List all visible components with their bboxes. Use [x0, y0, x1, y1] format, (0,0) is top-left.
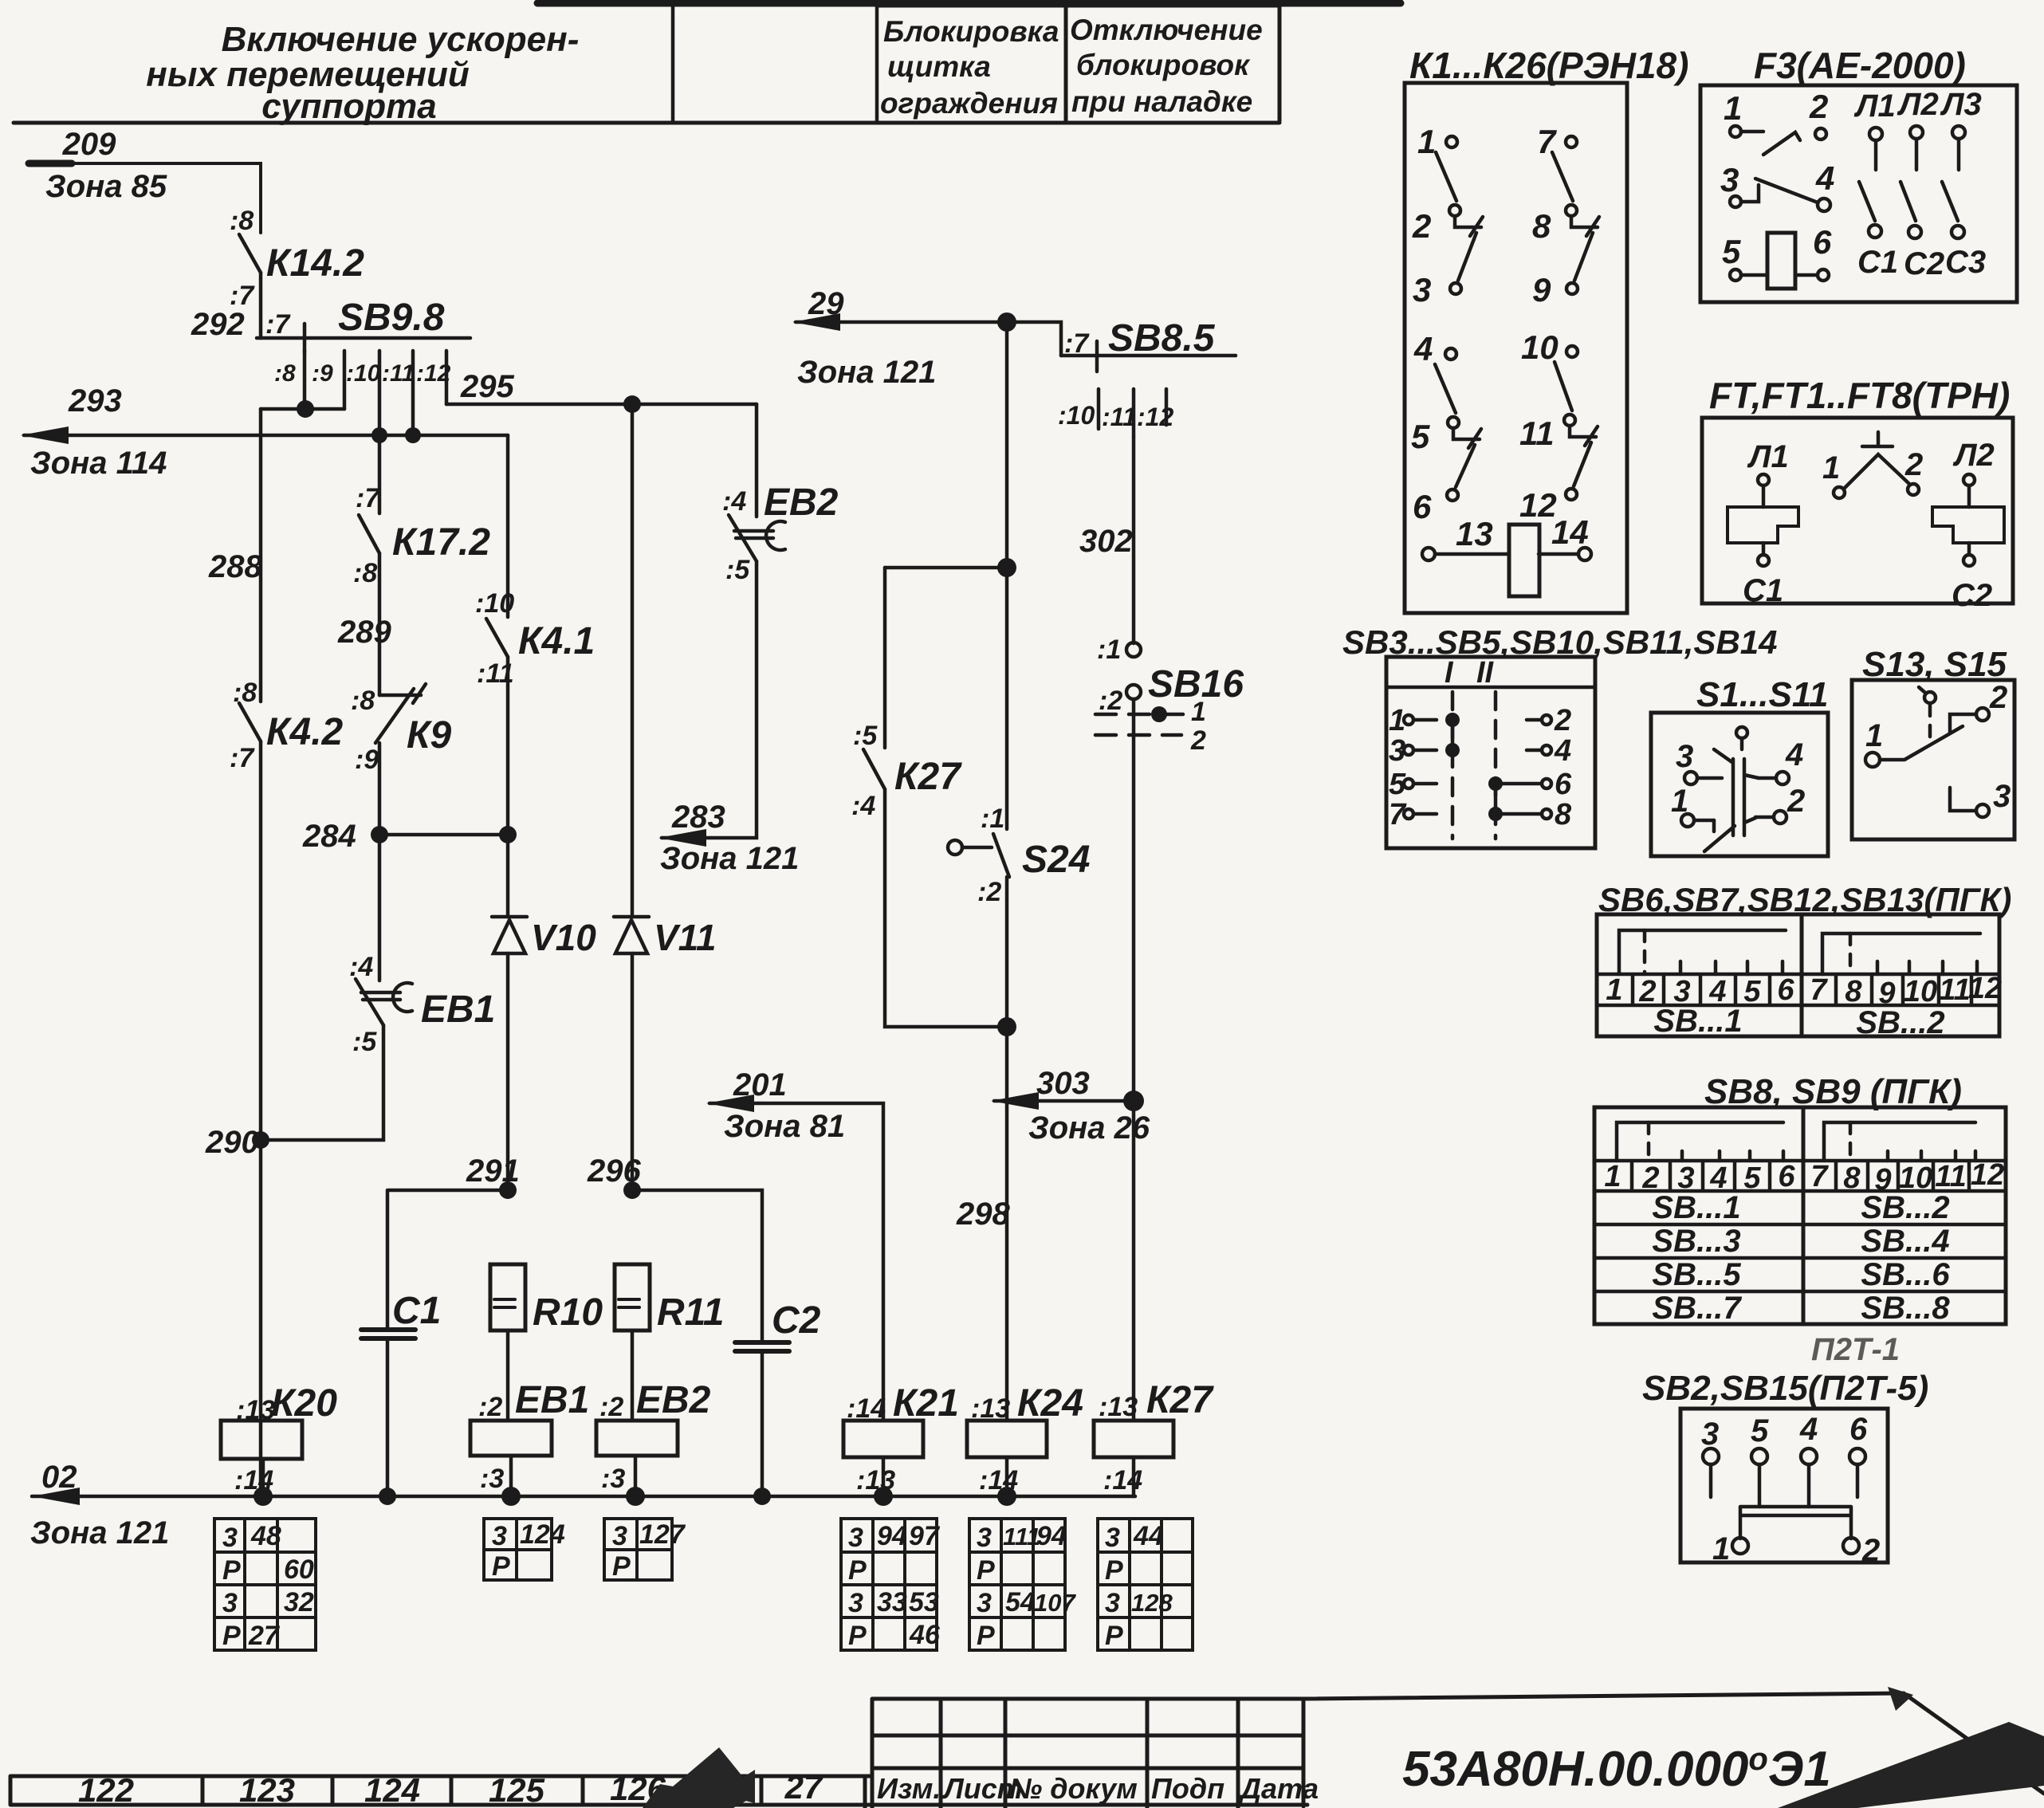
wire table K20 — [214, 1519, 316, 1650]
svg-text:3: 3 — [222, 1588, 238, 1618]
svg-text:SВ8, SВ9 (ПГК): SВ8, SВ9 (ПГК) — [1704, 1072, 1962, 1111]
labels :8 :9 :10 :11 :12 of SB9.8 — [274, 360, 451, 387]
F3 trip coil 5-6 — [1730, 233, 1829, 289]
svg-text:1: 1 — [1712, 1531, 1730, 1566]
svg-text:4: 4 — [1554, 734, 1571, 768]
node 291 — [466, 1154, 520, 1189]
faint label П2Т-1 — [1811, 1332, 1900, 1367]
wire 295 line — [446, 403, 757, 407]
zone strip bottom — [10, 1776, 872, 1808]
svg-text:3: 3 — [1676, 739, 1693, 774]
svg-text:5: 5 — [1389, 768, 1406, 801]
svg-text:SB9.8: SB9.8 — [338, 297, 445, 339]
SB8 box label rows — [1594, 1224, 2006, 1291]
svg-text:3: 3 — [1105, 1588, 1120, 1618]
svg-text:SB8.5: SB8.5 — [1108, 317, 1216, 360]
junction dot 793,1493 — [623, 1181, 641, 1199]
junction dot 1263,1288 — [997, 1017, 1016, 1036]
node 302 — [1079, 524, 1133, 559]
wire EB2 coil to bus — [634, 1456, 638, 1496]
svg-text:R10: R10 — [533, 1291, 603, 1334]
svg-text:С1: С1 — [1857, 245, 1898, 280]
connector box SB8,SB9(ПГК) — [1594, 1107, 2006, 1324]
node 209 Зона 85 — [45, 127, 167, 204]
svg-text:Зона 114: Зона 114 — [30, 446, 167, 481]
pin :1 of S24 — [981, 804, 1004, 834]
svg-text:122: 122 — [78, 1771, 134, 1808]
wire K24 to bus — [1005, 1457, 1009, 1496]
wire EB2 contact to 283 — [662, 561, 757, 838]
svg-text:1: 1 — [1724, 89, 1742, 127]
svg-text:Р: Р — [1105, 1621, 1123, 1651]
relay pinout box K1...K26 (РЭН18) — [1405, 83, 1627, 613]
button box SB2,SB15(П2Т-5) — [1680, 1409, 1888, 1562]
svg-text:SВ...2: SВ...2 — [1861, 1190, 1949, 1225]
svg-text::5: :5 — [725, 555, 750, 585]
svg-text:К9: К9 — [407, 714, 452, 757]
svg-text:7: 7 — [1537, 123, 1557, 160]
node 288 — [208, 549, 262, 584]
wire table K21 — [841, 1519, 937, 1650]
svg-text:SВ...2: SВ...2 — [1856, 1005, 1944, 1040]
svg-text:К1...К26(РЭН18): К1...К26(РЭН18) — [1409, 45, 1688, 86]
svg-text:ограждения: ограждения — [880, 87, 1058, 120]
svg-text:127: 127 — [639, 1519, 686, 1550]
wire EB1 contact to 290 line — [261, 1025, 383, 1140]
pin :2 of EB2 coil — [599, 1392, 623, 1422]
junction dot 476,546 — [371, 427, 387, 443]
wire K4.1 column top — [506, 435, 510, 617]
svg-text::7: :7 — [230, 743, 255, 773]
svg-text:53: 53 — [909, 1587, 939, 1617]
svg-text:SВ...8: SВ...8 — [1861, 1291, 1950, 1326]
bus junction dots — [254, 1487, 1016, 1506]
svg-text:ЕВ1: ЕВ1 — [421, 989, 495, 1031]
svg-text:К27: К27 — [894, 756, 962, 798]
svg-text:6: 6 — [1777, 973, 1794, 1007]
node 296 — [587, 1154, 641, 1189]
arrowhead 29 — [792, 313, 840, 331]
svg-text::14: :14 — [1103, 1465, 1142, 1496]
label EB1 contact — [421, 989, 495, 1031]
svg-text:3: 3 — [1389, 734, 1405, 768]
svg-text:293: 293 — [68, 383, 122, 419]
svg-text:С3: С3 — [1945, 245, 1986, 280]
F3 contact 1-2 — [1730, 126, 1826, 155]
svg-text:6: 6 — [1778, 1160, 1795, 1193]
SB2 box pins 3 5 4 6 — [1703, 1448, 1865, 1507]
svg-text:Зона 121: Зона 121 — [797, 355, 936, 390]
svg-text:2: 2 — [1861, 1533, 1880, 1568]
switch box S13,S15 — [1852, 680, 2015, 839]
svg-text:Зона 85: Зона 85 — [45, 169, 167, 204]
wire K17.2 column top — [378, 435, 382, 513]
svg-text:SВ...1: SВ...1 — [1652, 1190, 1740, 1225]
SB16 linkage label 2 — [1190, 725, 1206, 756]
pin :8 of K17.2 — [353, 558, 377, 588]
node 283 Зона 121 — [660, 800, 799, 876]
svg-text:Р: Р — [848, 1621, 867, 1651]
wire table K24 — [969, 1519, 1065, 1650]
wire SB16 to 303 junction — [1132, 699, 1136, 1101]
svg-text:8: 8 — [1532, 207, 1551, 245]
svg-text:SВ...6: SВ...6 — [1861, 1257, 1950, 1292]
svg-text:29: 29 — [808, 286, 844, 321]
svg-text:32: 32 — [284, 1587, 314, 1617]
svg-text:К14.2: К14.2 — [266, 242, 364, 285]
pin :7 of K14.2 — [230, 281, 255, 311]
svg-text::4: :4 — [722, 486, 746, 517]
junction dot 327,1430 — [252, 1131, 269, 1149]
relay coil K24 — [967, 1421, 1047, 1457]
svg-text:290: 290 — [205, 1125, 259, 1160]
svg-text:289: 289 — [337, 615, 391, 650]
svg-text::8: :8 — [274, 360, 296, 387]
svg-text:8: 8 — [1843, 1161, 1861, 1195]
S1 box symbol — [1681, 727, 1789, 851]
pin :2 of S24 — [977, 877, 1001, 907]
switch SB8.5 bar — [1061, 354, 1236, 358]
svg-text::9: :9 — [355, 745, 379, 775]
svg-text:6: 6 — [1413, 488, 1432, 525]
SB2 box bridge — [1740, 1507, 1851, 1539]
arrowhead 293 — [21, 426, 69, 444]
svg-text:5: 5 — [1743, 1161, 1761, 1195]
svg-text:С2: С2 — [1904, 246, 1944, 281]
label K21 — [893, 1382, 959, 1425]
svg-text::13: :13 — [236, 1395, 275, 1425]
label V10 — [531, 917, 596, 958]
svg-text:Включение ускорен-: Включение ускорен- — [222, 20, 580, 59]
junction dot 637,1493 — [499, 1181, 517, 1199]
arrowhead 201 — [706, 1095, 754, 1112]
header top border line — [537, 0, 1401, 7]
pin :5 of EB1 contact — [352, 1027, 377, 1057]
svg-text:3: 3 — [1720, 161, 1739, 198]
labels :10 :11 :12 of SB8.5 — [1058, 401, 1173, 431]
svg-text:С1: С1 — [392, 1290, 441, 1332]
svg-text:283: 283 — [671, 800, 725, 835]
pin :5 of K27 contact — [853, 721, 878, 751]
K1 box pins 7-8-9 — [1552, 136, 1599, 294]
svg-text:8: 8 — [1845, 975, 1862, 1008]
label SB9.8 — [338, 297, 445, 339]
wire 284 link — [379, 833, 508, 837]
K1 box pins 1-2-3 — [1436, 136, 1483, 294]
svg-text:33: 33 — [877, 1587, 907, 1617]
junction dot 1263,712 — [997, 558, 1016, 577]
header box empty cell — [673, 3, 877, 123]
svg-text:3: 3 — [977, 1588, 992, 1618]
pin tick :12 of SB8.5 — [1165, 389, 1169, 425]
SB3 box contact dots position I — [1445, 713, 1460, 757]
capacitor C2 — [735, 1342, 789, 1351]
svg-text:Р: Р — [492, 1551, 510, 1582]
pin :4 of EB2 contact — [722, 486, 746, 517]
svg-text:С1: С1 — [1743, 573, 1783, 608]
node 289 — [337, 615, 391, 650]
svg-text:блокировок: блокировок — [1076, 49, 1251, 81]
svg-text::14: :14 — [979, 1465, 1018, 1496]
title text Включение ускоренных перемещений суппорта — [146, 20, 579, 126]
pin :4 of K27 contact — [851, 791, 875, 821]
svg-text:2: 2 — [1412, 207, 1431, 245]
svg-text:1: 1 — [1417, 123, 1436, 160]
wire C1 to bus — [386, 1338, 390, 1496]
contact K17.2 — [359, 515, 379, 553]
contact K27 — [863, 749, 885, 789]
svg-text:V10: V10 — [531, 917, 596, 958]
svg-text::7: :7 — [356, 483, 381, 513]
label V11 — [654, 917, 716, 958]
pin :14 of K24 — [979, 1465, 1018, 1496]
svg-text:Блокировка: Блокировка — [883, 15, 1059, 48]
svg-text:SВ2,SВ15(П2Т-5): SВ2,SВ15(П2Т-5) — [1642, 1369, 1928, 1408]
svg-text:Р: Р — [1105, 1555, 1123, 1586]
wire S24 column to contact — [1005, 568, 1009, 829]
SB8 box wiring brackets right — [1824, 1122, 1975, 1161]
ink blob over zone 126/127 — [643, 1747, 755, 1808]
svg-text:10: 10 — [1521, 328, 1559, 366]
label K14.2 — [266, 242, 364, 285]
SB16 linkage dashed line 2 — [1095, 733, 1181, 737]
node 292 — [191, 307, 245, 342]
button SB16 — [1126, 643, 1141, 699]
svg-text::10: :10 — [1058, 401, 1095, 430]
svg-text::11: :11 — [1102, 403, 1137, 431]
svg-text:12: 12 — [1968, 972, 2002, 1005]
pin tick :10 of SB9.8 — [378, 351, 382, 435]
svg-text:10: 10 — [1904, 975, 1937, 1008]
svg-text::11: :11 — [382, 360, 415, 387]
F3 contact 3-4 — [1730, 179, 1830, 211]
svg-text:Изм.: Изм. — [877, 1772, 941, 1805]
wire 295 corner down to EB2 contact — [755, 404, 759, 517]
SB3 box row 4 — [1404, 809, 1551, 819]
svg-text:1: 1 — [1671, 784, 1688, 819]
svg-text:3: 3 — [1701, 1417, 1719, 1452]
svg-text::8: :8 — [353, 558, 377, 588]
pin :14 of K20 — [234, 1465, 273, 1496]
svg-text:Л1: Л1 — [1853, 88, 1896, 124]
svg-text:97: 97 — [909, 1521, 941, 1551]
svg-text:Зона 121: Зона 121 — [660, 841, 799, 876]
label EB1 coil — [515, 1379, 589, 1421]
svg-text:288: 288 — [208, 549, 262, 584]
svg-text:Р: Р — [222, 1555, 241, 1586]
switch SB9.8 bar — [257, 336, 470, 340]
pin :2 of SB16 — [1099, 686, 1122, 716]
svg-text:3: 3 — [848, 1588, 863, 1618]
switch table box SB3...SB5,SB10,SB11,SB14 — [1386, 657, 1595, 848]
diode V10 — [492, 917, 527, 953]
svg-text:3: 3 — [1413, 271, 1431, 309]
wire S24 to junction — [1005, 877, 1009, 1027]
svg-text:3: 3 — [222, 1523, 238, 1553]
svg-text:С2: С2 — [772, 1299, 821, 1342]
svg-text:1: 1 — [1604, 1160, 1621, 1193]
svg-text::3: :3 — [480, 1464, 504, 1494]
svg-text:54: 54 — [1005, 1587, 1036, 1617]
svg-text:S13, S15: S13, S15 — [1862, 645, 2007, 684]
label S24 — [1022, 839, 1090, 881]
pin tick :10 of SB8.5 — [1097, 389, 1101, 429]
label K27 contact — [894, 756, 962, 798]
label EB2 contact — [764, 481, 839, 524]
node 298 — [956, 1197, 1010, 1232]
svg-text::1: :1 — [1097, 635, 1121, 665]
svg-text:209: 209 — [62, 127, 116, 162]
svg-text:284: 284 — [302, 819, 356, 854]
svg-text:ЕВ2: ЕВ2 — [764, 481, 839, 524]
label SB8.5 — [1108, 317, 1216, 360]
svg-text:2: 2 — [1904, 447, 1923, 482]
SB6 box pin number row — [1597, 974, 1999, 1005]
arrowhead 283 — [658, 829, 706, 847]
pin tick :11 of SB9.8 — [411, 351, 415, 435]
node 201 Зона 81 — [724, 1067, 845, 1144]
svg-text::13: :13 — [1099, 1392, 1138, 1422]
svg-text:К4.1: К4.1 — [518, 620, 595, 662]
wire K27 to bus end — [1132, 1457, 1136, 1496]
svg-text::2: :2 — [599, 1392, 623, 1422]
svg-text::12: :12 — [1137, 403, 1173, 431]
bus 02 line — [32, 1495, 1135, 1499]
svg-text:5: 5 — [1411, 418, 1430, 455]
SB3 box row 3 — [1404, 779, 1551, 788]
label F3(АЕ-2000) — [1754, 45, 1966, 86]
svg-text:S24: S24 — [1022, 839, 1090, 881]
F3 poles Л1 Л2 Л3 — [1859, 126, 1965, 238]
svg-text:R11: R11 — [657, 1291, 725, 1334]
svg-text:FT,FT1..FT8(ТРН): FT,FT1..FT8(ТРН) — [1709, 375, 2010, 416]
svg-text:Р: Р — [977, 1621, 995, 1651]
svg-text:4: 4 — [1799, 1412, 1818, 1447]
wire table EB1 — [484, 1519, 552, 1580]
svg-text:2: 2 — [1190, 725, 1206, 756]
svg-text:SВ...7: SВ...7 — [1652, 1291, 1742, 1326]
wire C2 to bus — [761, 1351, 765, 1496]
contact EB1 (limit switch) — [356, 979, 412, 1025]
svg-text:125: 125 — [489, 1771, 545, 1808]
svg-text::13: :13 — [971, 1393, 1010, 1424]
svg-text:48: 48 — [250, 1521, 281, 1551]
pin :1 of SB16 — [1097, 635, 1121, 665]
svg-text:Отключение: Отключение — [1070, 14, 1263, 46]
svg-text:Зона 81: Зона 81 — [724, 1109, 845, 1144]
junction dot 518,546 — [405, 427, 421, 443]
SB6 box bottom labels — [1653, 1004, 1944, 1040]
svg-text:П2Т-1: П2Т-1 — [1811, 1332, 1900, 1367]
wire EB1 coil to bus — [509, 1456, 513, 1496]
label K17.2 — [392, 521, 490, 564]
svg-text:128: 128 — [1131, 1589, 1173, 1617]
wire V11 column (295 to 296) — [631, 404, 635, 1190]
label S13,S15 — [1862, 645, 2007, 684]
svg-text:К20: К20 — [271, 1382, 337, 1425]
wire SB16 column — [1132, 437, 1136, 643]
wire K27 branch upper — [883, 568, 887, 748]
svg-text:ЕВ1: ЕВ1 — [515, 1379, 589, 1421]
svg-text::7: :7 — [265, 309, 291, 340]
label K20 — [271, 1382, 337, 1425]
pin :5 of EB2 contact — [725, 555, 750, 585]
label R10 — [533, 1291, 603, 1334]
svg-text:5: 5 — [1751, 1413, 1769, 1448]
svg-text:7: 7 — [1389, 798, 1407, 831]
svg-text::2: :2 — [977, 877, 1001, 907]
SB6 box wiring brackets left — [1619, 930, 1786, 974]
svg-text:4: 4 — [1785, 737, 1803, 772]
pin :2 of EB1 coil — [478, 1392, 502, 1422]
contact EB2 (limit switch) — [729, 515, 785, 561]
pin :8 of K14.2 — [230, 206, 254, 236]
wire table EB2 — [604, 1519, 672, 1580]
pin :3 of EB1 coil — [480, 1464, 504, 1494]
pin tick :9 of SB9.8 — [343, 351, 347, 409]
K1 box coil 13-14 — [1422, 525, 1591, 596]
svg-text:292: 292 — [191, 307, 245, 342]
svg-text::1: :1 — [981, 804, 1004, 834]
contact K9 (NC) — [375, 684, 426, 743]
svg-text:3: 3 — [612, 1521, 627, 1551]
pin :7 tick of SB9.8 — [303, 324, 307, 352]
svg-text::5: :5 — [853, 721, 878, 751]
svg-text:11: 11 — [1939, 973, 1970, 1007]
pin :11 of K4.1 — [477, 658, 514, 689]
wire K4.1 to junction 284 — [506, 657, 510, 835]
svg-text::10: :10 — [475, 588, 514, 619]
svg-text::14: :14 — [847, 1393, 886, 1424]
svg-text:F3(АЕ-2000): F3(АЕ-2000) — [1754, 45, 1966, 86]
breaker pinout box F3(АЕ-2000) — [1700, 85, 2017, 302]
label SB2,SB15(П2Т-5) — [1642, 1369, 1928, 1408]
title block table — [872, 1699, 1307, 1808]
connector box SB6,SB7,SB12,SB13(ПГК) — [1597, 914, 1999, 1036]
contact K4.2 — [239, 703, 261, 741]
diode V11 — [614, 917, 649, 953]
svg-text::2: :2 — [478, 1392, 502, 1422]
wire SB16 junction to K27 coil — [1132, 1101, 1136, 1421]
label SB8,SB9 (ПГК) — [1704, 1072, 1962, 1111]
svg-text::7: :7 — [1064, 328, 1090, 359]
switch box S1...S11 — [1651, 713, 1828, 856]
svg-text::8: :8 — [233, 678, 257, 708]
label S1...S11 — [1696, 675, 1829, 714]
svg-text:Л1: Л1 — [1747, 439, 1789, 474]
svg-text:Р: Р — [977, 1555, 995, 1586]
pin :8 of K9 — [351, 686, 375, 716]
svg-text:124: 124 — [520, 1519, 565, 1550]
junction dot 637,1047 — [499, 826, 517, 843]
label K27 coil — [1146, 1379, 1214, 1421]
svg-text:2: 2 — [1787, 784, 1805, 819]
junction dot 1263,404 — [997, 312, 1016, 332]
svg-text:46: 46 — [909, 1620, 941, 1650]
wire K27 branch top link — [885, 566, 1007, 570]
K1 box pins 4-5-6 — [1435, 348, 1481, 501]
label SB16 — [1148, 663, 1244, 706]
pin :13 of K24 — [971, 1393, 1010, 1424]
SB2 box pins 1 2 — [1732, 1538, 1859, 1554]
FT heater Л1-С1 — [1728, 474, 1798, 566]
node 303 Зона 26 — [1028, 1066, 1150, 1146]
svg-text:1: 1 — [1865, 718, 1883, 753]
svg-text:1: 1 — [1191, 697, 1206, 727]
label K24 — [1017, 1382, 1083, 1425]
svg-text:К21: К21 — [893, 1382, 959, 1425]
pin :13 of K27 coil — [1099, 1392, 1138, 1422]
